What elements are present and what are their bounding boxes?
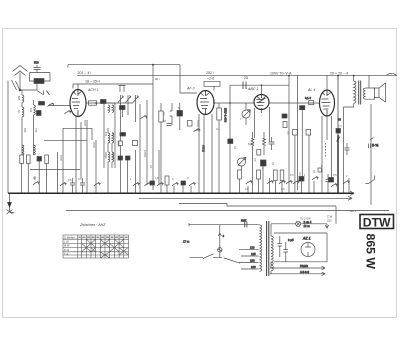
node d18 [95, 102, 97, 104]
svg-text:201 – 4 l: 201 – 4 l [78, 71, 92, 75]
POWER SUPPLY SECTION [183, 218, 329, 276]
svg-text:ABC 1: ABC 1 [247, 87, 258, 91]
capacitor pair Cb [306, 130, 311, 136]
svg-text:252 /: 252 / [206, 71, 214, 75]
node d9 [302, 193, 304, 195]
svg-text:90 /: 90 / [155, 77, 160, 81]
eye arrow [238, 157, 246, 165]
wire p11 legs [245, 103, 247, 125]
pot P13 [267, 181, 273, 185]
cap C6 [326, 174, 331, 193]
resistor R2 dark [39, 102, 45, 106]
arrow bus end [350, 191, 354, 195]
antenna coupling loop [20, 73, 50, 91]
resistor R15 [217, 108, 222, 120]
svg-text:865 W: 865 W [364, 234, 378, 270]
cap C2 [70, 178, 75, 193]
svg-text:5·%: 5·% [372, 144, 379, 148]
wire OT primary bottom [344, 104, 354, 108]
svg-text:G·Wellen: G·Wellen [64, 235, 75, 239]
coil IF2b [108, 152, 110, 162]
table header marks [79, 236, 128, 238]
wire top rail 2 [77, 74, 397, 76]
pot P14 [279, 181, 285, 185]
tube ACH1 [70, 90, 86, 117]
svg-text:–2·6: –2·6 [207, 77, 214, 81]
wire ABC1 out right [270, 102, 320, 104]
svg-text:6000: 6000 [248, 142, 254, 146]
node d14 [261, 84, 263, 86]
trimmer cap T2 [126, 95, 131, 104]
cap elec 1 [278, 236, 283, 257]
node dot [19, 89, 21, 91]
pot circle P11 [242, 110, 250, 118]
pot P10 [194, 129, 200, 133]
resistor R8 dark [118, 156, 123, 160]
pot P6 [145, 183, 151, 187]
svg-text:2000: 2000 [92, 142, 96, 148]
wire IF2 legs [108, 128, 112, 193]
eye circle [238, 158, 246, 166]
svg-text:101: 101 [29, 108, 33, 113]
svg-text:5000: 5000 [117, 141, 121, 147]
svg-text:Zwischen · AHZ: Zwischen · AHZ [79, 223, 106, 227]
arrow return2 end [348, 196, 352, 200]
coil IF2a [108, 133, 110, 143]
wire OT secondary to speaker [366, 88, 375, 99]
resistor R21b [274, 170, 278, 181]
wire vertical MF feed [152, 65, 154, 190]
svg-text:0,5: 0,5 [290, 173, 294, 177]
svg-text:0,5: 0,5 [78, 177, 82, 181]
wire tube1 legs [58, 117, 97, 194]
svg-text:0,1·4: 0,1·4 [305, 96, 311, 100]
node d17 [353, 75, 355, 77]
node d2 [107, 193, 109, 195]
svg-text:0,5: 0,5 [286, 131, 290, 135]
switch arm S1 [8, 80, 20, 193]
cap C3 [80, 178, 85, 193]
wire ground bus [8, 192, 354, 194]
resistor R21 dark [299, 177, 304, 182]
svg-text:0,5: 0,5 [298, 172, 302, 176]
resistor AL4 grid [309, 101, 314, 105]
resistor R13 [159, 111, 163, 122]
wire tube1 input [48, 105, 70, 107]
svg-text:25: 25 [244, 76, 248, 80]
arrow heater top [325, 224, 329, 228]
pot P17 [331, 184, 337, 188]
wire k1 legs [170, 103, 180, 130]
svg-text:125: 125 [251, 252, 256, 256]
pot P9 [189, 183, 195, 187]
pilot lamp [296, 221, 301, 226]
svg-text:10000: 10000 [143, 150, 147, 158]
component dark K7 [336, 129, 341, 134]
node d1 [75, 193, 77, 195]
svg-text:110: 110 [250, 246, 255, 250]
antenna symbol [13, 66, 28, 91]
cap C7 [345, 143, 350, 155]
resistor R6 [45, 155, 49, 164]
svg-text:M·W: M·W [64, 244, 70, 248]
transformer core [267, 221, 269, 276]
wire r15 legs [218, 103, 220, 193]
svg-text:101: 101 [104, 132, 108, 137]
svg-text:0,5: 0,5 [281, 187, 285, 191]
resistor R-coupling [89, 101, 97, 105]
wire trafo bottom legs [270, 262, 272, 274]
resistor R7 [119, 141, 123, 146]
svg-text:5000: 5000 [83, 120, 87, 126]
trimmer cap T3 [133, 95, 138, 104]
resistor R10 dark [150, 181, 155, 185]
switch on B+ [337, 137, 341, 142]
wire abc1 lower legs [240, 166, 270, 193]
svg-text:17 m: 17 m [183, 240, 190, 244]
wire b+ to power [335, 206, 337, 224]
wire right legs [275, 110, 309, 193]
capacitor dark C4b [120, 106, 126, 110]
wire IF2 frame [104, 103, 115, 168]
pot P0 [65, 111, 71, 115]
capacitor C-grid [243, 82, 246, 90]
wire heater lines [270, 266, 325, 275]
zigzag R16 [251, 132, 254, 193]
DTW logo box [360, 215, 394, 230]
ground arrow [8, 203, 12, 208]
wire top rail 3 [73, 84, 153, 90]
svg-text:06/90: 06/90 [111, 152, 115, 159]
pot P7 [157, 183, 163, 187]
coil IF2d [112, 152, 114, 162]
wire vertical 289 [288, 76, 290, 193]
coil L1 [34, 79, 44, 84]
pot P5b [141, 116, 147, 120]
svg-text:GP 1: GP 1 [350, 209, 357, 213]
node d5 [198, 193, 200, 195]
zigzag R16b [263, 132, 266, 155]
RIGHT MIDDLE [274, 76, 380, 205]
resistor R17 [257, 150, 261, 156]
wire return line 3 [179, 204, 336, 207]
transformer OT secondary [363, 88, 365, 99]
coil L4 [34, 100, 36, 120]
pot P16 [293, 181, 299, 185]
voltage taps [239, 249, 259, 269]
svg-text:335: 335 [23, 128, 27, 133]
svg-text:50000: 50000 [196, 120, 200, 128]
wire mains top [189, 223, 260, 226]
svg-text:0,5: 0,5 [253, 158, 257, 162]
coil L6 [34, 145, 36, 155]
coil IF2c [112, 133, 114, 143]
wire af3 area legs [167, 114, 212, 193]
wire AF3 anode loop [204, 81, 220, 90]
svg-text:T·A: T·A [64, 252, 68, 256]
wire top rail 1 [68, 65, 180, 68]
svg-text:605: 605 [17, 96, 21, 101]
component anode choke [101, 100, 107, 104]
tube AL4 [320, 90, 335, 116]
table column lines [78, 235, 124, 258]
tube AF3 [197, 91, 214, 115]
wire speaker return [369, 76, 371, 205]
node d3 [135, 193, 137, 195]
svg-text:220: 220 [327, 219, 332, 223]
fuse circle [218, 248, 222, 252]
pot P18 [343, 181, 349, 185]
svg-text:252/–1·000: 252/–1·000 [224, 108, 228, 123]
node d4 [152, 193, 154, 195]
pot P3 [60, 183, 66, 187]
svg-text:8 µF: 8 µF [288, 238, 294, 242]
tiny value labels [59, 112, 316, 176]
wire mains bottom [190, 257, 223, 259]
ground stem [9, 193, 11, 211]
wire OT top feed [338, 76, 354, 81]
svg-text:201: 201 [111, 132, 115, 137]
svg-text:ACH 1: ACH 1 [87, 88, 99, 92]
pot P15 [286, 181, 292, 185]
resistor R20 [283, 122, 287, 128]
pot P4 [94, 183, 100, 187]
grid cap ABC1 [86, 76, 341, 142]
ground crow-foot [7, 210, 15, 215]
resistor R11 [165, 176, 169, 185]
component dark K5 [282, 114, 287, 118]
wire top right arrow [386, 73, 397, 76]
capacitor dark C4 [120, 133, 126, 137]
OUTPUT TRANSFORMER + SPEAKER [338, 73, 397, 107]
resistor R4 [27, 155, 31, 164]
pot P12 [246, 181, 252, 185]
svg-text:20 + 20 – 4: 20 + 20 – 4 [330, 71, 348, 75]
svg-text:FRGR: FRGR [300, 264, 308, 268]
wire trafo top out [271, 224, 327, 236]
wire k3 legs [229, 144, 231, 194]
pot P2 [33, 176, 39, 185]
component dark K4 [261, 160, 267, 166]
svg-text:1000: 1000 [59, 155, 63, 161]
coil L3 [22, 107, 24, 122]
resistor R9 dark [126, 156, 131, 160]
svg-text:0,1: 0,1 [271, 162, 275, 166]
node d8 [288, 193, 290, 195]
cap elec 2 [284, 242, 289, 262]
svg-text:0,2: 0,2 [162, 112, 166, 116]
node d6 [236, 193, 238, 195]
svg-text:6,3: 6,3 [338, 124, 342, 128]
node d7 [269, 193, 271, 195]
cap C9 [369, 138, 374, 149]
pot arrow P1 [48, 103, 54, 107]
table header text [64, 235, 75, 256]
node d13 [229, 102, 231, 104]
svg-text:12 m: 12 m [304, 224, 311, 228]
transformer OT core [359, 81, 361, 105]
resistor R19 [257, 170, 261, 179]
svg-text:500: 500 [34, 61, 39, 65]
dashed link [325, 143, 327, 157]
component dark K8 [300, 106, 305, 110]
core L4 [37, 111, 42, 116]
svg-text:1,5: 1,5 [155, 176, 159, 180]
fuse squiggle [218, 249, 222, 251]
resistor R18 [238, 170, 242, 179]
node d19 [120, 193, 122, 195]
svg-text:240: 240 [251, 265, 256, 269]
transformer OT primary [354, 81, 356, 103]
svg-text:L·W: L·W [64, 240, 69, 244]
transformer primary [260, 225, 262, 271]
svg-text:0,5: 0,5 [68, 178, 72, 182]
svg-text:AL 4: AL 4 [307, 88, 315, 92]
wire selector vertical [219, 225, 221, 258]
resistor R21c [280, 170, 284, 181]
wire tube1 under rail [63, 128, 92, 140]
svg-text:0,1: 0,1 [233, 146, 237, 150]
trimmer cap T1 [118, 95, 123, 104]
capacitor pair Ca [293, 130, 298, 136]
TABLE bottom left [63, 235, 129, 258]
wire IF1 legs [121, 104, 136, 130]
svg-text:753: 753 [34, 128, 38, 133]
wire ACH1 out [86, 102, 133, 104]
resistor R14 [188, 121, 193, 127]
wire left legs to bus [22, 161, 47, 193]
arrow up mark [218, 233, 221, 236]
coil L2 [22, 90, 24, 107]
wire r13 legs [160, 103, 162, 193]
mains cap [245, 222, 247, 228]
mains switch [203, 254, 214, 259]
node d11 [337, 192, 339, 194]
resistor R5 dark [37, 157, 42, 162]
wire top rail 4 [180, 65, 197, 93]
pot P22 [312, 177, 318, 194]
speaker cone [375, 83, 386, 102]
svg-text:AZ 1: AZ 1 [302, 237, 311, 241]
coil labels vertical [17, 96, 115, 159]
coil IF2e [108, 105, 110, 113]
svg-text:220: 220 [250, 259, 255, 263]
node d16 [337, 75, 339, 77]
MIDDLE COMPONENT CLUSTERS [118, 100, 212, 193]
node d20 [346, 193, 348, 195]
svg-text:300: 300 [196, 128, 201, 132]
coil IF2f [112, 105, 114, 113]
rectifier AZ1 [301, 243, 315, 257]
wire avc rail [44, 139, 87, 141]
wire B rail top [274, 233, 327, 262]
wire AF3 to ABC1 [214, 102, 254, 104]
svg-text:0,1: 0,1 [149, 165, 153, 169]
selector arm [224, 258, 240, 263]
cap C8 [269, 137, 275, 150]
wire left mid rail [30, 169, 80, 171]
wire ABC1 grid [230, 76, 327, 94]
table row lines [63, 239, 129, 255]
resistor R3 [20, 155, 24, 164]
component box C4c [133, 141, 138, 146]
svg-text:0,4: 0,4 [216, 127, 220, 131]
wire mid legs [121, 100, 160, 193]
svg-text:30/90: 30/90 [104, 152, 108, 159]
svg-text:DTW: DTW [363, 215, 391, 229]
wire B+ vertical [337, 135, 339, 193]
component small K6 [318, 168, 322, 172]
node d12 [213, 102, 215, 104]
IF TRANSFORMER 2 [104, 103, 115, 193]
resistor R12 dark [181, 181, 186, 185]
switch S2b [47, 91, 50, 96]
LEFT COIL SECTION [20, 90, 100, 193]
wire abc1 legs [230, 85, 270, 141]
tube ABC1 [254, 95, 269, 110]
logo frame [360, 215, 394, 229]
pot P5 [133, 183, 139, 187]
wire left column a [22, 120, 34, 155]
pot P8 [172, 183, 178, 187]
svg-text:0,5: 0,5 [333, 173, 337, 177]
pot arrow P11 [243, 110, 251, 118]
table frame [63, 235, 129, 258]
switch S3 [366, 176, 375, 184]
svg-text:0,5: 0,5 [245, 187, 249, 191]
component K1 dark [177, 111, 183, 117]
ARROWS at line ends [336, 191, 354, 224]
node d15 [288, 75, 290, 77]
wire return line 4 [66, 210, 389, 212]
wire return line 2 [139, 197, 352, 199]
wire IF1 loop [119, 86, 126, 93]
svg-text:100V 70–V·A: 100V 70–V·A [270, 71, 292, 75]
svg-text:75·2·5W: 75·2·5W [300, 217, 311, 221]
coil L5 [22, 145, 24, 155]
wire vertical 297 [297, 76, 299, 190]
table crosses [82, 239, 129, 258]
IF TRANSFORMER 1 [118, 86, 138, 131]
wire al4 legs [322, 107, 349, 193]
antenna cap C1 [34, 65, 41, 73]
svg-text:4 H 2: 4 H 2 [202, 145, 206, 152]
svg-text:4·5·6·8: 4·5·6·8 [300, 270, 309, 274]
svg-text:AF 3: AF 3 [186, 87, 195, 91]
node d10 [321, 193, 323, 195]
resistor R24 dark [329, 178, 334, 183]
svg-text:K·W: K·W [64, 248, 70, 252]
transformer secondary [271, 236, 273, 271]
switch S2 [37, 91, 44, 96]
svg-text:NSZ: NSZ [241, 218, 247, 222]
capacitor C5 [167, 124, 172, 126]
svg-text:18 – 35+l: 18 – 35+l [85, 80, 100, 84]
ABC1 AREA [217, 85, 275, 193]
component dark K3 [228, 139, 233, 144]
